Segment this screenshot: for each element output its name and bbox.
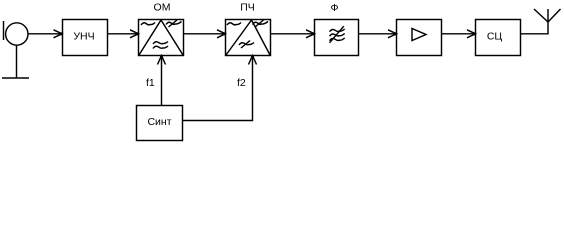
wire f1: Синт to ОМ — [161, 56, 163, 105]
block Синт (frequency synthesizer) — [137, 106, 183, 141]
arrowhead into СЦ — [467, 30, 476, 38]
svg-text:ОМ: ОМ — [154, 2, 171, 14]
arrowhead into amplifier — [388, 30, 397, 38]
wire f2: Синт to ПЧ — [183, 56, 253, 121]
svg-text:f2: f2 — [237, 77, 246, 89]
wire УНЧ to ОМ — [108, 33, 138, 35]
arrowhead into ОМ bottom — [158, 56, 166, 65]
microphone BM1 — [4, 21, 29, 45]
arrowhead into ОМ — [130, 30, 139, 38]
arrowhead into Ф — [306, 30, 315, 38]
wire amplifier to СЦ — [442, 33, 475, 35]
wire Ф to amplifier — [359, 33, 396, 35]
svg-text:f1: f1 — [146, 77, 155, 89]
arrowhead into ПЧ — [217, 30, 226, 38]
mixer ОМ (balanced modulator) — [139, 20, 184, 56]
microphone stand / ground — [2, 45, 29, 78]
svg-text:УНЧ: УНЧ — [73, 31, 94, 43]
amplifier A1 — [397, 20, 442, 56]
block УНЧ (audio amplifier) — [63, 20, 108, 56]
filter Ф (band-pass) — [315, 20, 359, 56]
svg-text:СЦ: СЦ — [487, 31, 503, 43]
arrowhead into ПЧ bottom — [249, 56, 257, 65]
wire СЦ to antenna — [521, 22, 549, 34]
mixer ПЧ (frequency converter) — [226, 20, 271, 56]
arrowhead into УНЧ — [54, 30, 63, 38]
antenna W1 — [534, 9, 561, 22]
block СЦ (matching network) — [476, 20, 521, 56]
wire ОМ to ПЧ — [184, 33, 225, 35]
svg-text:ПЧ: ПЧ — [240, 2, 255, 14]
wire ПЧ to Ф — [271, 33, 314, 35]
svg-text:Ф: Ф — [331, 2, 339, 14]
wire mic to УНЧ — [28, 33, 62, 35]
svg-text:Синт: Синт — [147, 116, 171, 128]
